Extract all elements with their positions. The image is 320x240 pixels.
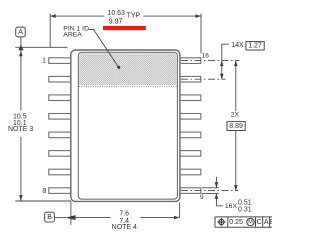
svg-text:A: A (264, 219, 269, 226)
svg-text:AREA: AREA (63, 32, 82, 39)
svg-text:1: 1 (42, 55, 46, 64)
svg-text:B: B (269, 219, 272, 226)
svg-text:14X: 14X (231, 42, 244, 49)
svg-text:0.31: 0.31 (238, 206, 252, 213)
svg-text:2X: 2X (231, 112, 240, 119)
svg-text:9.97: 9.97 (109, 18, 123, 25)
svg-text:C: C (257, 219, 262, 226)
svg-text:1.27: 1.27 (248, 43, 262, 50)
svg-text:9: 9 (200, 194, 204, 201)
svg-text:8.89: 8.89 (229, 123, 243, 130)
svg-text:8: 8 (42, 186, 46, 195)
svg-text:TYP: TYP (127, 12, 141, 19)
svg-text:NOTE 3: NOTE 3 (8, 126, 33, 133)
svg-text:7.6: 7.6 (119, 211, 129, 218)
svg-text:NOTE 4: NOTE 4 (112, 224, 137, 231)
svg-text:16X: 16X (225, 203, 238, 210)
svg-text:0.25: 0.25 (229, 219, 243, 226)
svg-text:10.63: 10.63 (107, 10, 125, 17)
svg-text:B: B (47, 214, 52, 221)
svg-text:16: 16 (202, 53, 210, 60)
svg-text:M: M (248, 219, 253, 225)
svg-text:A: A (18, 29, 23, 36)
